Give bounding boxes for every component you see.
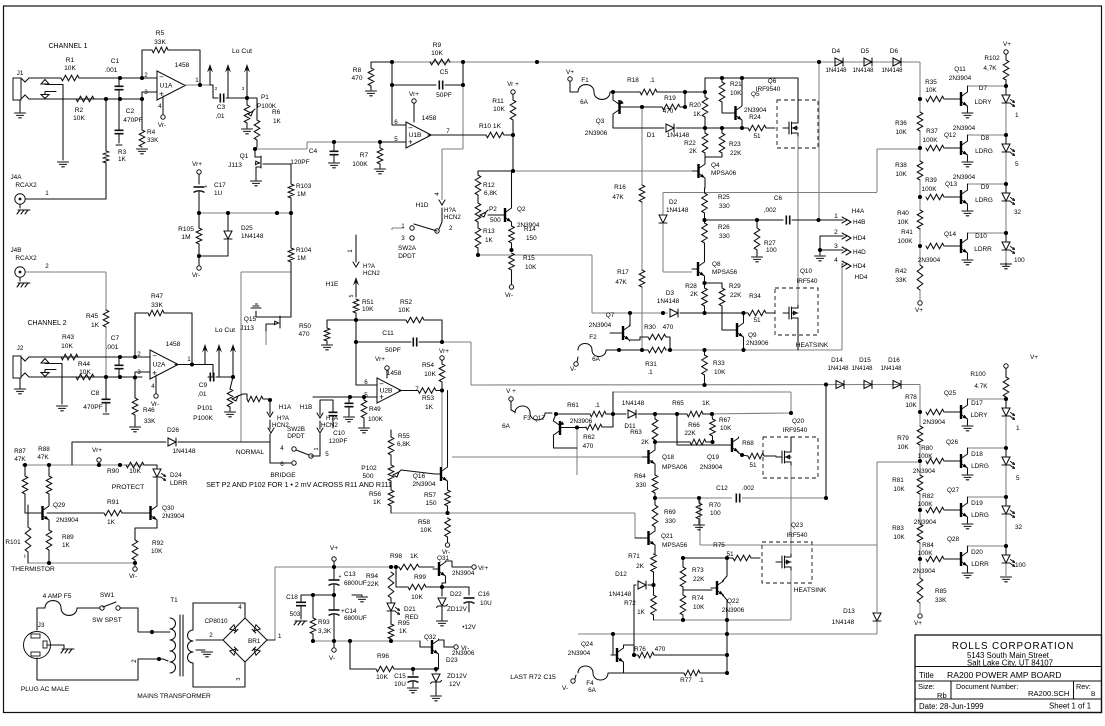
- svg-text:47K: 47K: [14, 456, 26, 463]
- svg-text:DPDT: DPDT: [287, 433, 304, 440]
- svg-text:HD4: HD4: [855, 274, 868, 281]
- svg-text:R101: R101: [5, 539, 21, 546]
- svg-text:Q3: Q3: [596, 118, 605, 125]
- svg-text:R10 1K: R10 1K: [479, 123, 502, 130]
- svg-text:1: 1: [187, 356, 191, 363]
- svg-text:P100K: P100K: [193, 415, 213, 422]
- svg-text:2K: 2K: [641, 439, 650, 446]
- svg-text:NORMAL: NORMAL: [236, 449, 265, 456]
- svg-text:R9: R9: [433, 42, 442, 49]
- svg-text:R12: R12: [483, 182, 495, 189]
- svg-text:R66: R66: [688, 422, 700, 429]
- svg-text:H4B: H4B: [853, 219, 865, 226]
- svg-text:P2: P2: [489, 206, 497, 213]
- svg-text:1K: 1K: [373, 499, 382, 506]
- svg-text:10K: 10K: [362, 306, 374, 313]
- svg-text:HD4: HD4: [853, 235, 866, 242]
- svg-text:V+: V+: [1003, 41, 1011, 48]
- svg-text:Vr-: Vr-: [461, 645, 469, 652]
- svg-text:Q22: Q22: [727, 598, 740, 605]
- svg-text:R16: R16: [614, 184, 626, 191]
- svg-text:D5: D5: [861, 48, 870, 55]
- svg-text:IRF9540: IRF9540: [783, 427, 808, 434]
- svg-text:10K: 10K: [376, 674, 388, 681]
- svg-text:J4B: J4B: [10, 247, 21, 254]
- svg-text:MPSA06: MPSA06: [711, 170, 737, 177]
- svg-text:V-: V-: [562, 685, 568, 692]
- svg-text:R99: R99: [414, 574, 426, 581]
- svg-text:LDRG: LDRG: [971, 463, 989, 470]
- svg-text:H1D: H1D: [416, 202, 429, 209]
- svg-text:−: −: [408, 124, 413, 133]
- svg-text:10K: 10K: [893, 534, 905, 541]
- svg-text:ZD12V: ZD12V: [447, 673, 468, 680]
- svg-text:1M: 1M: [297, 255, 306, 262]
- svg-text:Vr-: Vr-: [505, 292, 513, 299]
- svg-text:.002: .002: [742, 485, 755, 492]
- svg-text:H?A: H?A: [363, 263, 376, 270]
- svg-text:470: 470: [663, 108, 674, 115]
- svg-text:10K: 10K: [420, 527, 432, 534]
- svg-text:F1: F1: [581, 77, 589, 84]
- svg-text:22K: 22K: [730, 150, 742, 157]
- svg-text:R96: R96: [377, 653, 389, 660]
- svg-text:HCN2: HCN2: [363, 270, 380, 277]
- svg-text:P1: P1: [261, 94, 269, 101]
- svg-text:R71: R71: [628, 553, 640, 560]
- svg-text:Vr+: Vr+: [409, 91, 419, 98]
- svg-text:Q15: Q15: [244, 316, 257, 323]
- svg-text:Lo Cut: Lo Cut: [232, 48, 252, 55]
- svg-text:R77: R77: [680, 677, 692, 684]
- svg-text:Size:: Size:: [918, 682, 935, 691]
- svg-text:R44: R44: [78, 361, 90, 368]
- svg-text:500: 500: [362, 473, 373, 480]
- svg-text:33K: 33K: [935, 597, 947, 604]
- svg-text:MPSA06: MPSA06: [662, 464, 688, 471]
- svg-text:1: 1: [195, 77, 199, 84]
- svg-text:+: +: [379, 393, 384, 402]
- svg-text:4 AMP F5: 4 AMP F5: [43, 593, 72, 600]
- svg-text:1N4148: 1N4148: [832, 619, 855, 626]
- svg-text:Vr+: Vr+: [192, 161, 202, 168]
- svg-text:R68: R68: [742, 440, 754, 447]
- svg-text:R76: R76: [634, 646, 646, 653]
- svg-text:R24: R24: [749, 114, 761, 121]
- svg-text:R25: R25: [718, 194, 730, 201]
- svg-text:T1: T1: [170, 597, 178, 604]
- svg-text:R84: R84: [922, 542, 934, 549]
- svg-text:10K: 10K: [431, 50, 443, 57]
- svg-text:5: 5: [394, 136, 398, 143]
- svg-text:3: 3: [834, 243, 838, 250]
- svg-text:1N4148: 1N4148: [851, 366, 873, 372]
- svg-text:22K: 22K: [730, 292, 742, 299]
- svg-text:330: 330: [719, 203, 730, 210]
- svg-text:Q23: Q23: [791, 522, 804, 529]
- svg-text:10K: 10K: [895, 129, 907, 136]
- svg-text:50PF: 50PF: [385, 347, 401, 354]
- svg-text:R105: R105: [178, 226, 194, 233]
- svg-text:.001: .001: [105, 67, 118, 74]
- svg-text:R39: R39: [925, 177, 937, 184]
- svg-text:470: 470: [655, 646, 666, 653]
- svg-text:2K: 2K: [636, 563, 645, 570]
- svg-text:100: 100: [766, 247, 777, 254]
- svg-text:2N3904: 2N3904: [953, 125, 976, 132]
- svg-text:J113: J113: [228, 162, 242, 169]
- svg-text:Q9: Q9: [748, 332, 757, 339]
- svg-text:R23: R23: [729, 141, 741, 148]
- svg-text:1K: 1K: [702, 400, 711, 407]
- svg-text:1458: 1458: [166, 341, 181, 348]
- svg-text:10K: 10K: [925, 87, 937, 94]
- svg-text:10K: 10K: [693, 604, 705, 611]
- svg-text:U2A: U2A: [153, 362, 166, 369]
- svg-text:1: 1: [834, 213, 838, 220]
- svg-text:LDRY: LDRY: [975, 99, 993, 106]
- svg-text:2N3904: 2N3904: [913, 568, 936, 575]
- svg-text:1N4148: 1N4148: [666, 207, 689, 214]
- svg-text:2K: 2K: [690, 291, 699, 298]
- svg-text:2N3904: 2N3904: [162, 513, 185, 520]
- svg-text:1K: 1K: [425, 404, 434, 411]
- svg-text:R42: R42: [895, 268, 907, 275]
- svg-text:R103: R103: [296, 183, 312, 190]
- svg-text:503: 503: [290, 611, 301, 618]
- svg-text:6800UF: 6800UF: [344, 580, 367, 587]
- svg-text:1K: 1K: [273, 118, 282, 125]
- svg-text:1U: 1U: [214, 190, 223, 197]
- svg-text:Sheet 1 of 1: Sheet 1 of 1: [1049, 702, 1091, 711]
- svg-text:J3: J3: [38, 622, 45, 629]
- svg-text:R15: R15: [523, 255, 535, 262]
- svg-text:,01: ,01: [215, 113, 224, 120]
- svg-text:V+: V+: [914, 620, 922, 627]
- svg-text:R100: R100: [970, 371, 986, 378]
- svg-text:100K: 100K: [922, 186, 938, 193]
- svg-text:R92: R92: [152, 540, 164, 547]
- svg-text:6,8K: 6,8K: [397, 441, 411, 448]
- svg-text:IRF540: IRF540: [787, 532, 808, 539]
- svg-text:10U: 10U: [394, 681, 406, 688]
- svg-text:Salt Lake City, UT 84107: Salt Lake City, UT 84107: [967, 659, 1053, 668]
- svg-text:R31: R31: [645, 361, 657, 368]
- svg-text:.1: .1: [698, 677, 704, 684]
- svg-text:R36: R36: [895, 120, 907, 127]
- svg-text:BR1: BR1: [248, 638, 261, 645]
- svg-text:10K: 10K: [73, 115, 85, 122]
- svg-text:4: 4: [151, 383, 155, 390]
- svg-text:10K: 10K: [714, 369, 726, 376]
- svg-text:Q11: Q11: [954, 66, 966, 73]
- svg-text:2N3906: 2N3906: [746, 340, 769, 347]
- svg-text:1458: 1458: [175, 62, 190, 69]
- svg-text:10K: 10K: [895, 171, 907, 178]
- svg-text:32: 32: [1014, 209, 1022, 216]
- svg-text:MPSA56: MPSA56: [662, 542, 688, 549]
- svg-text:2N3904: 2N3904: [452, 570, 475, 577]
- svg-text:R40: R40: [897, 210, 909, 217]
- svg-text:100K: 100K: [923, 137, 939, 144]
- svg-text:D2: D2: [669, 199, 678, 206]
- svg-text:1N4148: 1N4148: [827, 366, 849, 372]
- svg-text:CHANNEL 1: CHANNEL 1: [48, 43, 87, 50]
- svg-text:10K: 10K: [897, 444, 909, 451]
- svg-text:LDRR: LDRR: [971, 561, 989, 568]
- svg-text:1K: 1K: [693, 111, 702, 118]
- svg-text:2: 2: [131, 659, 138, 663]
- svg-text:1: 1: [278, 633, 282, 640]
- svg-text:2N3904: 2N3904: [744, 107, 767, 114]
- svg-text:330: 330: [636, 482, 647, 489]
- svg-text:6A: 6A: [580, 99, 589, 106]
- svg-text:2N3906: 2N3906: [570, 418, 593, 425]
- svg-text:SET P2 AND P102 FOR 1 • 2 mV A: SET P2 AND P102 FOR 1 • 2 mV ACROSS R11 …: [206, 481, 392, 489]
- svg-text:1K: 1K: [410, 553, 419, 560]
- svg-text:Title: Title: [919, 671, 934, 680]
- svg-text:D20: D20: [971, 549, 983, 556]
- svg-text:R47: R47: [151, 293, 163, 300]
- svg-text:4,7K: 4,7K: [983, 65, 997, 72]
- svg-text:Q12: Q12: [944, 132, 957, 139]
- svg-text:R61: R61: [567, 402, 579, 409]
- svg-text:2N3904: 2N3904: [949, 75, 972, 82]
- svg-text:F3: F3: [523, 415, 531, 422]
- svg-text:6: 6: [394, 119, 398, 126]
- svg-text:51: 51: [726, 551, 734, 558]
- svg-text:120PF: 120PF: [290, 159, 309, 166]
- svg-text:1N4148: 1N4148: [881, 68, 903, 74]
- svg-text:2N3904: 2N3904: [568, 650, 591, 657]
- svg-text:R52: R52: [400, 299, 412, 306]
- svg-text:HD4: HD4: [853, 263, 866, 270]
- svg-text:RCAX2: RCAX2: [15, 182, 37, 189]
- svg-text:10K: 10K: [64, 65, 76, 72]
- svg-text:•12V: •12V: [462, 624, 476, 631]
- svg-text:R30: R30: [644, 324, 656, 331]
- svg-text:10K: 10K: [398, 307, 410, 314]
- svg-text:V-: V-: [570, 366, 576, 373]
- svg-text:,002: ,002: [764, 207, 777, 214]
- svg-text:Vr-: Vr-: [151, 401, 159, 408]
- svg-text:D9: D9: [981, 184, 990, 191]
- svg-text:1458: 1458: [422, 115, 437, 122]
- svg-text:1M: 1M: [297, 191, 306, 198]
- svg-text:THERMISTOR: THERMISTOR: [11, 566, 55, 573]
- svg-text:6: 6: [280, 461, 284, 468]
- svg-text:10K: 10K: [151, 548, 163, 555]
- svg-text:3: 3: [137, 369, 141, 376]
- svg-text:5: 5: [325, 451, 329, 458]
- svg-text:10K: 10K: [897, 219, 909, 226]
- svg-text:D26: D26: [167, 427, 179, 434]
- svg-text:10K: 10K: [730, 90, 742, 97]
- svg-text:R46: R46: [143, 407, 155, 414]
- svg-text:330: 330: [665, 518, 676, 525]
- svg-text:H4A: H4A: [852, 208, 865, 215]
- svg-text:R21: R21: [730, 81, 742, 88]
- svg-text:H?A: H?A: [444, 207, 457, 214]
- svg-text:C5: C5: [440, 69, 449, 76]
- svg-text:R11: R11: [492, 98, 504, 105]
- svg-text:150: 150: [425, 500, 436, 507]
- svg-text:4: 4: [434, 192, 441, 196]
- svg-text:CP8010: CP8010: [204, 618, 228, 625]
- svg-text:47K: 47K: [37, 454, 49, 461]
- svg-text:C15: C15: [394, 673, 406, 680]
- svg-text:2: 2: [137, 351, 141, 358]
- svg-text:CHANNEL 2: CHANNEL 2: [27, 320, 66, 327]
- svg-text:V+: V+: [566, 69, 574, 76]
- svg-text:R64: R64: [634, 473, 646, 480]
- svg-text:100K: 100K: [898, 238, 914, 245]
- svg-text:2N3906: 2N3906: [585, 130, 608, 137]
- svg-text:Q16: Q16: [413, 473, 426, 480]
- svg-text:Q26: Q26: [946, 439, 959, 446]
- svg-text:D25: D25: [241, 225, 253, 232]
- svg-text:51: 51: [753, 317, 761, 324]
- svg-text:V+: V+: [330, 545, 338, 552]
- svg-text:R54: R54: [422, 362, 434, 369]
- svg-text:1: 1: [401, 223, 405, 230]
- svg-text:H1A: H1A: [279, 404, 292, 411]
- svg-text:Q20: Q20: [792, 418, 805, 425]
- svg-text:1: 1: [1015, 112, 1019, 119]
- svg-text:Vr-: Vr-: [158, 122, 166, 129]
- svg-text:Rb: Rb: [937, 691, 947, 700]
- svg-text:SW2A: SW2A: [398, 245, 417, 252]
- svg-text:D12: D12: [615, 571, 627, 578]
- svg-text:R5: R5: [156, 30, 165, 37]
- svg-text:BRIDGE: BRIDGE: [270, 472, 296, 479]
- svg-text:R37: R37: [926, 128, 938, 135]
- svg-text:1N4148: 1N4148: [609, 591, 632, 598]
- svg-text:2N3904: 2N3904: [923, 419, 946, 426]
- svg-text:1K: 1K: [62, 542, 71, 549]
- svg-text:3: 3: [144, 89, 148, 96]
- svg-text:6800UF: 6800UF: [344, 615, 367, 622]
- svg-text:470PF: 470PF: [123, 117, 142, 124]
- svg-text:2N3904: 2N3904: [589, 322, 612, 329]
- svg-text:100: 100: [1014, 257, 1025, 264]
- svg-text:120PF: 120PF: [329, 438, 348, 445]
- svg-text:3: 3: [401, 235, 405, 242]
- svg-text:R104: R104: [296, 247, 312, 254]
- svg-text:100K: 100K: [918, 501, 934, 508]
- svg-text:D3: D3: [666, 290, 675, 297]
- svg-text:5: 5: [1016, 475, 1020, 482]
- svg-text:R2: R2: [75, 107, 84, 114]
- svg-text:1458: 1458: [387, 370, 402, 377]
- svg-text:PROTECT: PROTECT: [112, 484, 144, 491]
- svg-text:C18: C18: [286, 594, 298, 601]
- svg-text:H4D: H4D: [853, 249, 866, 256]
- svg-text:2K: 2K: [689, 148, 698, 155]
- svg-text:Q28: Q28: [947, 536, 960, 543]
- svg-text:J4A: J4A: [10, 174, 22, 181]
- svg-text:D21: D21: [404, 606, 416, 613]
- svg-text:−: −: [152, 352, 157, 361]
- svg-text:2N3904: 2N3904: [914, 519, 937, 526]
- svg-text:R38: R38: [895, 162, 907, 169]
- svg-text:C4: C4: [309, 148, 318, 155]
- svg-text:IRF9540: IRF9540: [756, 86, 781, 93]
- svg-text:1N4148: 1N4148: [880, 366, 902, 372]
- svg-text:R51: R51: [362, 299, 374, 306]
- svg-text:470: 470: [583, 443, 594, 450]
- svg-text:47K: 47K: [612, 194, 624, 201]
- svg-text:+: +: [408, 138, 413, 147]
- svg-text:10K: 10K: [61, 343, 73, 350]
- svg-text:LDRY: LDRY: [971, 412, 989, 419]
- svg-text:2N3904: 2N3904: [918, 257, 941, 264]
- svg-text:RA200.SCH: RA200.SCH: [1028, 689, 1069, 698]
- svg-text:IRF540: IRF540: [797, 278, 818, 285]
- svg-text:D17: D17: [971, 400, 983, 407]
- svg-text:2: 2: [144, 72, 148, 79]
- svg-text:R73: R73: [692, 567, 704, 574]
- svg-text:Q18: Q18: [662, 454, 675, 461]
- svg-text:H1E: H1E: [326, 281, 338, 288]
- svg-text:,01: ,01: [197, 391, 206, 398]
- svg-text:Q13: Q13: [945, 181, 958, 188]
- svg-text:2N3904: 2N3904: [953, 174, 976, 181]
- svg-text:1: 1: [314, 448, 320, 451]
- svg-text:RA200 POWER AMP BOARD: RA200 POWER AMP BOARD: [947, 670, 1061, 680]
- svg-text:Q19: Q19: [707, 454, 720, 461]
- svg-text:33K: 33K: [154, 39, 166, 46]
- svg-text:1N4148: 1N4148: [241, 233, 264, 240]
- svg-text:R83: R83: [892, 525, 904, 532]
- svg-text:R98: R98: [390, 553, 402, 560]
- svg-text:4: 4: [834, 257, 838, 264]
- svg-text:R8: R8: [353, 67, 362, 74]
- svg-text:10K: 10K: [720, 425, 732, 432]
- svg-text:B: B: [1091, 691, 1096, 698]
- svg-text:1: 1: [347, 249, 354, 253]
- svg-text:100K: 100K: [368, 416, 384, 423]
- svg-text:R33: R33: [713, 360, 725, 367]
- svg-text:R63: R63: [630, 429, 642, 436]
- svg-text:R81: R81: [892, 477, 904, 484]
- svg-text:Q10: Q10: [800, 268, 813, 275]
- svg-text:R41: R41: [901, 229, 913, 236]
- svg-text:V+: V+: [915, 307, 923, 314]
- svg-text:.001: .001: [106, 344, 119, 351]
- svg-text:Vr-: Vr-: [192, 272, 200, 279]
- svg-text:D8: D8: [981, 135, 990, 142]
- svg-text:H?A: H?A: [277, 415, 290, 422]
- svg-text:HEATSINK: HEATSINK: [796, 342, 829, 349]
- svg-text:J1: J1: [17, 70, 24, 77]
- svg-text:Q31: Q31: [437, 555, 450, 562]
- svg-text:Vr+: Vr+: [478, 565, 488, 572]
- svg-text:D22: D22: [450, 591, 462, 598]
- svg-text:MPSA56: MPSA56: [712, 269, 738, 276]
- svg-text:Q2: Q2: [517, 206, 526, 213]
- svg-text:D24: D24: [170, 472, 182, 479]
- svg-text:R85: R85: [935, 588, 947, 595]
- svg-text:10K: 10K: [411, 594, 423, 601]
- svg-text:150: 150: [526, 235, 537, 242]
- svg-text:D10: D10: [975, 233, 987, 240]
- svg-text:1K: 1K: [107, 519, 116, 526]
- svg-text:1K: 1K: [91, 322, 100, 329]
- svg-text:SW1: SW1: [100, 592, 115, 599]
- svg-text:Document Number:: Document Number:: [956, 682, 1018, 691]
- svg-text:Rev:: Rev:: [1076, 682, 1091, 691]
